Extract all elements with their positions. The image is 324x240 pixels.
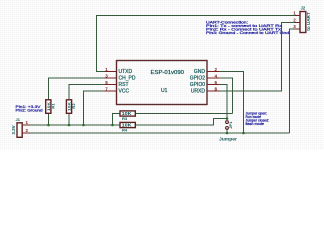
svg-text:JP1: JP1 [228,121,233,129]
wire RST net: pin5 left and down to R2 [69,85,105,101]
wire CH_PD net: pin3 left and down to R1 [49,78,105,101]
wire GPIO0 net: pin6 right and down to jumper node [219,85,227,121]
pin 4 stub GPIO2 [207,77,219,79]
pin 1 stub UTXD [105,71,117,73]
op IC U1 body ESP-01v090 [117,61,208,105]
svg-text:Jumper: Jumper [219,136,237,141]
svg-text:URXD: URXD [191,89,206,95]
svg-text:GND: GND [194,69,206,75]
svg-text:3.3V: 3.3V [11,125,16,134]
svg-text:1: 1 [293,11,296,16]
svg-text:1: 1 [26,120,29,125]
wire GPIO2 net: pin4 right and down to R3 [219,78,233,114]
svg-text:R3: R3 [122,116,128,121]
svg-text:2: 2 [293,17,296,22]
svg-text:to UART: to UART [306,12,311,31]
wire GND net: pin2 right and down to ground rail [219,72,244,134]
connector J2 to UART [293,6,311,33]
connector J1 [11,117,30,137]
pin 3 stub CH_PD [105,77,117,79]
wire J2 pin3 riser [290,29,296,133]
resistor R2 [66,100,76,114]
wire URXD net: pin8 right and up to J2 pin2 [219,22,296,91]
junction 3.3V/R2 [68,124,71,127]
svg-text:ESP-01v090: ESP-01v090 [151,70,185,76]
junction JP1/ground rail [226,132,229,135]
svg-text:GPIO2: GPIO2 [190,76,206,82]
svg-text:VCC: VCC [119,89,130,95]
svg-text:UTXD: UTXD [119,69,133,75]
wire R3 branch from 3.3V rail [113,114,121,126]
junction 3.3V/R1 [47,124,50,127]
svg-text:2: 2 [26,128,29,133]
jumper JP1 [219,121,237,142]
wire R2 bottom lead [68,113,70,126]
svg-text:CH_PD: CH_PD [119,76,136,82]
junction 3.3V/R3 branch [111,124,114,127]
svg-text:Pin2: Ground: Pin2: Ground [16,109,43,113]
wire R1 bottom lead [48,113,50,126]
pin 5 stub RST [105,84,117,86]
note J1 pinout text block [16,105,43,113]
wire UTXD net: pin1 to top loop to J2 pin1 [97,16,296,72]
svg-text:J2: J2 [301,6,306,11]
pin 6 stub GPIO0 [207,84,219,86]
junction GPIO0/R4/JP1 [226,117,229,120]
wire +3.3V rail from J1 pin1 to R4 left lead [30,124,120,126]
svg-text:flash mode: flash mode [246,122,265,126]
svg-text:R2: R2 [71,103,76,109]
note UART connection text block [206,20,289,35]
wire R3 right lead to GPIO2 vertical [136,113,233,115]
wire VCC net: pin7 left and down to 3.3V rail [84,91,105,125]
svg-text:U1: U1 [161,88,168,94]
junction 3.3V/VCC [82,124,85,127]
wire ground rail from J1 pin2 to J2 pin3 riser [30,132,290,134]
pin 8 stub URXD [207,90,219,92]
note jumper mode text block [246,111,270,126]
svg-text:R1: R1 [51,103,56,109]
svg-text:R4: R4 [122,127,128,132]
wire R4 right lead staircase to GPIO0 node [136,119,228,126]
pin 7 stub VCC [105,90,117,92]
svg-text:RST: RST [119,82,129,88]
svg-text:Pin3: Ground - Connect to UART: Pin3: Ground - Connect to UART Gnd [206,31,289,35]
wire JP1 pin2 down to ground rail [226,129,228,133]
svg-text:GPIO0: GPIO0 [190,82,206,88]
pin 2 stub GND [207,71,219,73]
svg-text:3: 3 [293,24,296,29]
resistor R1 [46,100,56,114]
svg-text:J1: J1 [16,117,21,122]
resistor R4 [120,122,135,132]
resistor R3 [120,111,135,121]
junction GND/ground rail [242,132,245,135]
